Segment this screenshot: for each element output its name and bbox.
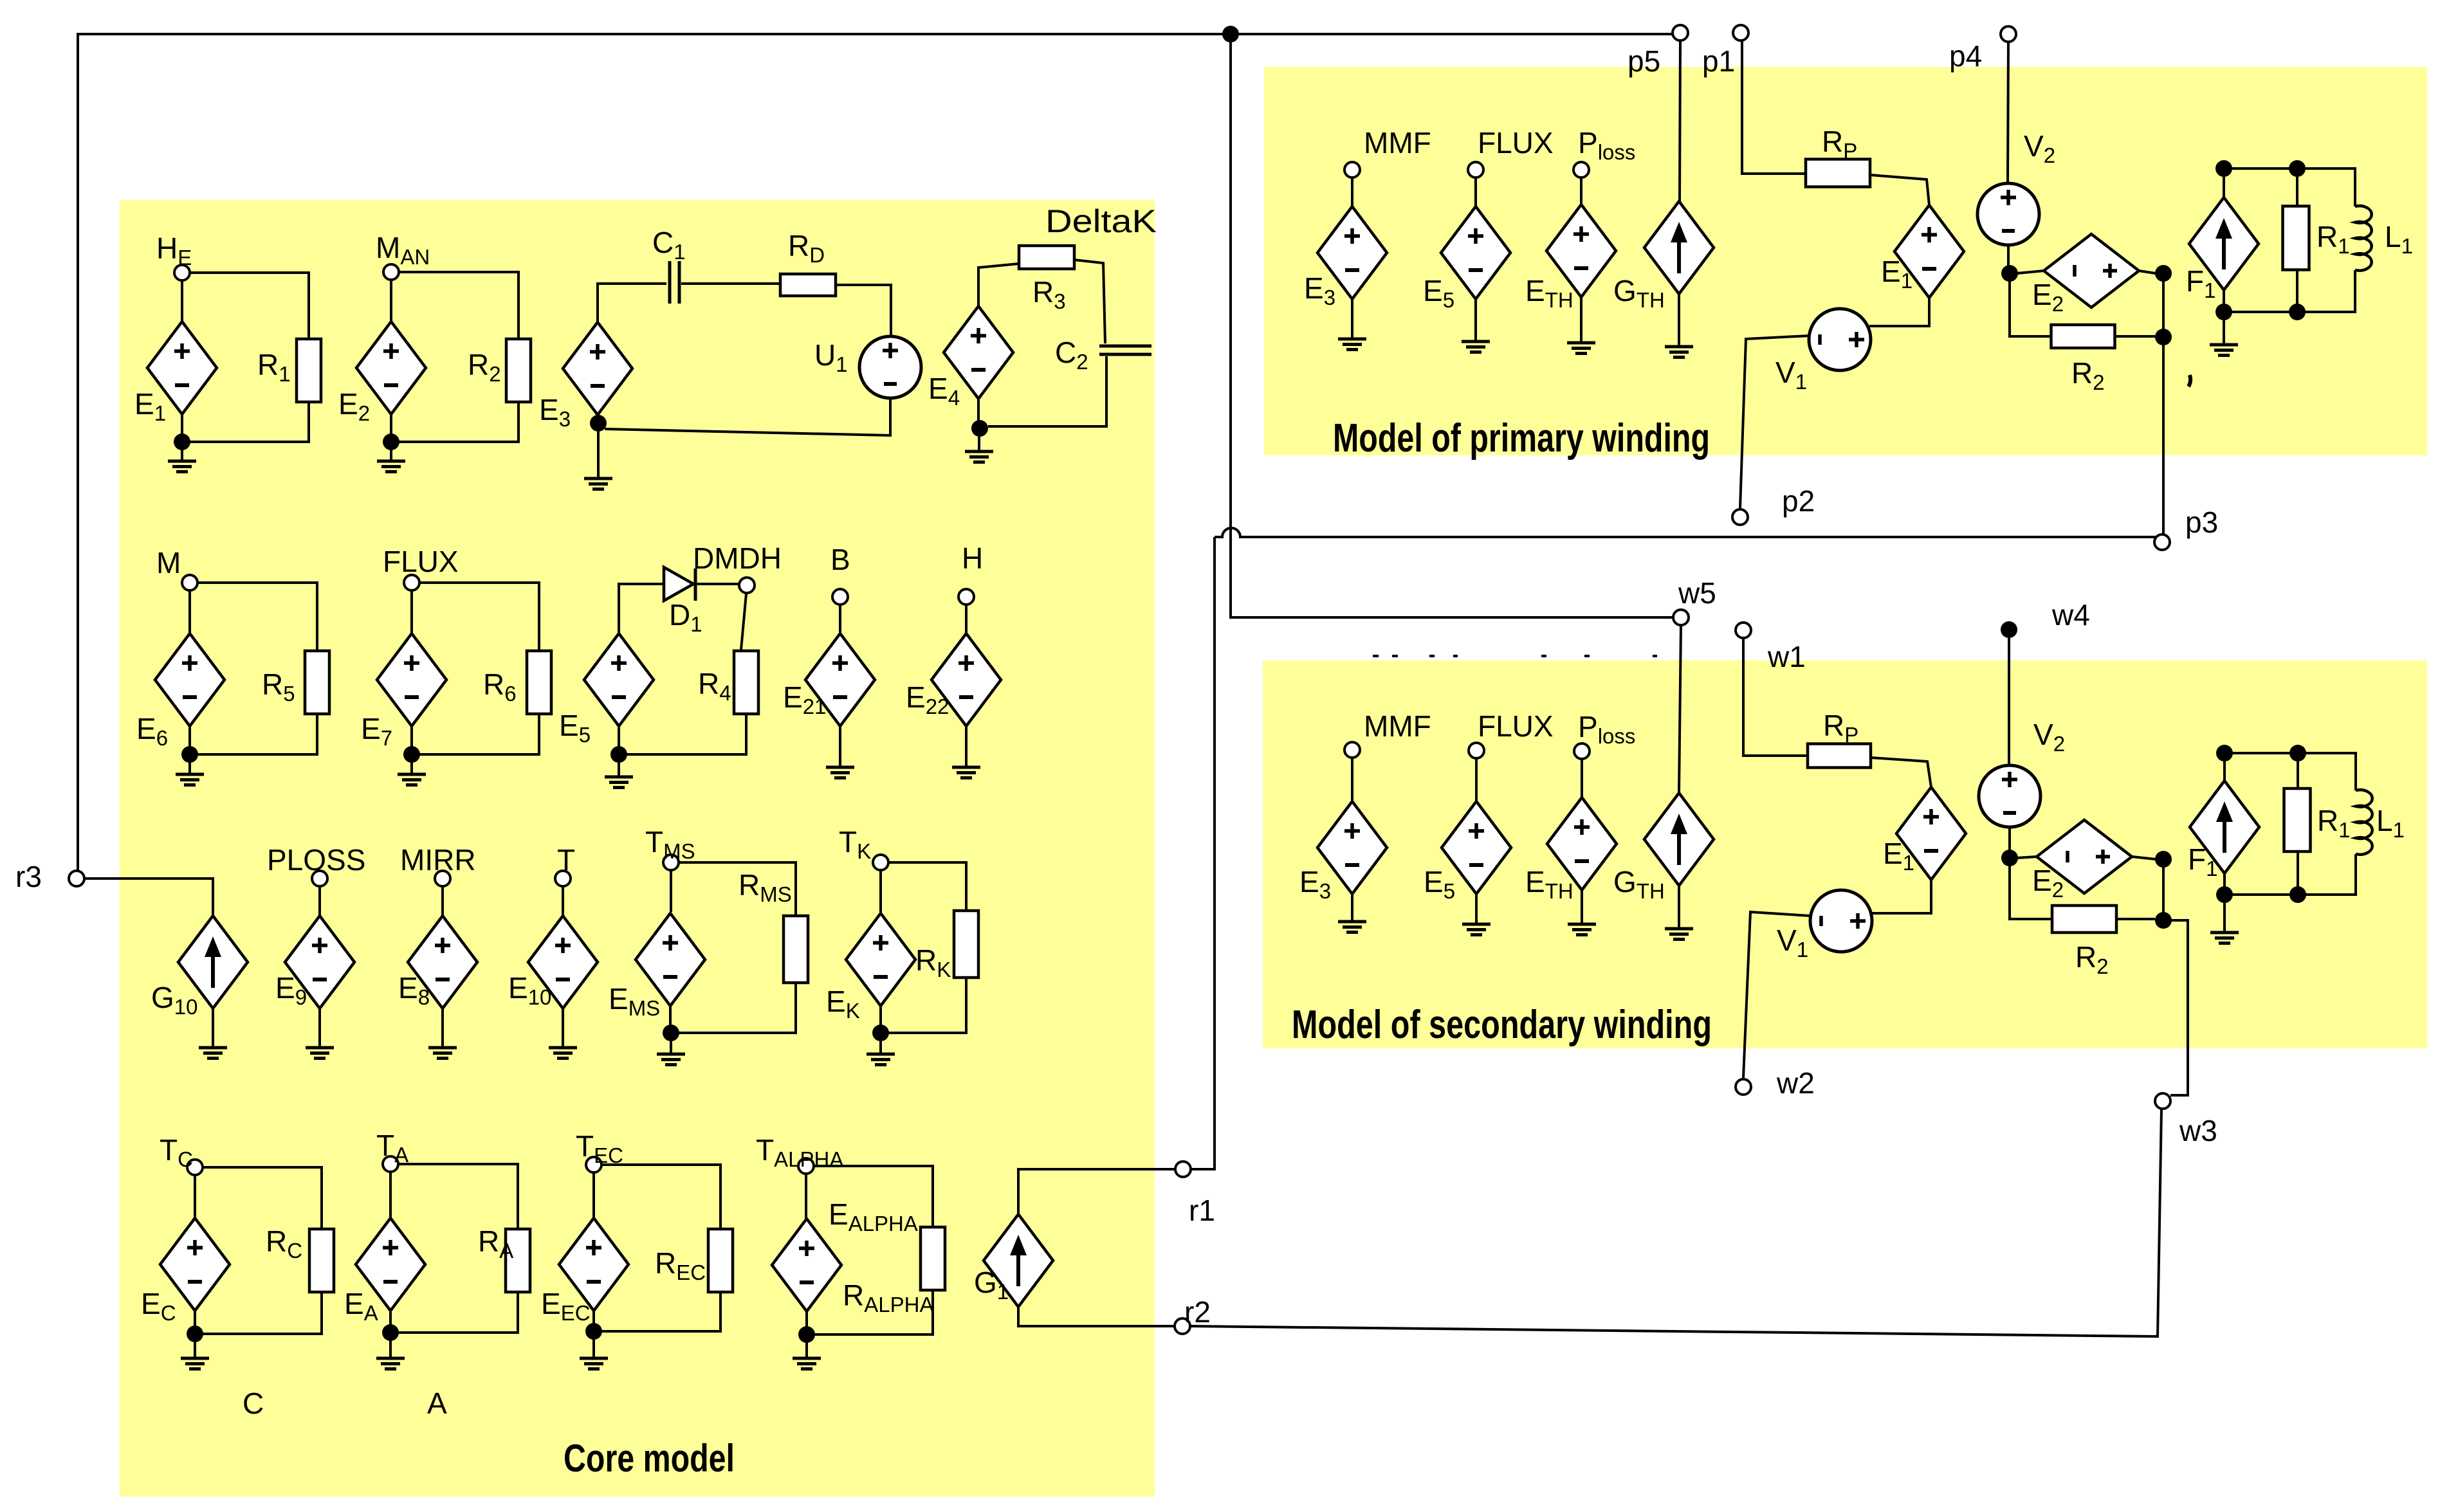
junction R1 bottom (secondary) (2289, 886, 2306, 903)
ground E9 (306, 1048, 334, 1059)
resistor RMS (784, 916, 808, 983)
terminal r1 (1175, 1161, 1191, 1177)
ground E1 (168, 461, 196, 472)
wire w4 to V2 (secondary) (2008, 638, 2010, 765)
wire E3 dot to ground (597, 432, 600, 478)
secondary winding yellow box (1263, 660, 2427, 1048)
source E8 (408, 916, 477, 1008)
source E3 (secondary) (1317, 801, 1387, 894)
svg-text:Model of secondary winding: Model of secondary winding (1292, 1003, 1712, 1047)
source E9 (285, 916, 354, 1008)
wire E4 dot to ground (978, 437, 980, 451)
terminal FLUX (secondary) (1469, 743, 1484, 758)
wire R2 to dot (primary) (2115, 335, 2155, 338)
svg-text:FLUX: FLUX (383, 545, 459, 578)
wire Ploss to ETH (secondary) (1581, 759, 1583, 797)
junction EK bottom (872, 1025, 889, 1041)
wire EALPHA dot to ground (805, 1342, 808, 1358)
wire E5 to ground (secondary) (1475, 894, 1478, 924)
resistor RC (309, 1229, 334, 1292)
wire L1 bottom (secondary) (2224, 854, 2356, 895)
wire p5 to GTH (primary) (1680, 41, 1680, 201)
wire V2 to dot (secondary) (2008, 827, 2011, 850)
wire dot to R2 (secondary) (2010, 866, 2055, 919)
terminal p5 (1673, 25, 1688, 41)
wire EEC dot to ground (592, 1339, 595, 1358)
resistor R2 (core) (506, 339, 531, 402)
wire E2 dots vertical (secondary) (2162, 867, 2165, 913)
wire E1 to V1 (secondary) (1871, 880, 1931, 913)
wire E8 to ground (441, 1008, 444, 1048)
terminal MMF (secondary) (1344, 742, 1360, 758)
svg-text:w3: w3 (2179, 1114, 2217, 1147)
terminal w4 (filled) (2001, 621, 2017, 638)
wire TA to EA (389, 1172, 392, 1218)
wire E7 dot to ground (410, 762, 413, 774)
junction EMS bottom (663, 1025, 679, 1041)
source E5 (primary) (1441, 206, 1510, 299)
voltage source V1 (secondary) (1810, 890, 1872, 952)
svg-text:p2: p2 (1782, 484, 1815, 518)
core model yellow box (120, 200, 1155, 1497)
wire p3 rail with hop (1215, 528, 2156, 537)
junction V2 bottom (secondary) (2001, 850, 2018, 866)
ground E8 (428, 1048, 457, 1059)
terminal DMDH (739, 578, 755, 593)
svg-text:p1: p1 (1702, 44, 1735, 78)
source E1 (secondary) (1896, 787, 1966, 880)
resistor R1 (secondary) (2284, 788, 2311, 852)
wire TC to RC top (203, 1167, 322, 1229)
wire w1 to RP (secondary) (1743, 639, 1808, 756)
junction E6 bottom (181, 746, 198, 763)
ground EC (181, 1358, 209, 1369)
ground EEC (580, 1358, 608, 1369)
source G10 (178, 916, 248, 1008)
wire TMS to EMS (670, 870, 672, 912)
source E3 (core) (563, 322, 632, 415)
wire TC to EC (194, 1175, 196, 1218)
junction E2 right (primary) (2155, 265, 2172, 282)
wire MMF to E3 (primary) (1351, 178, 1353, 206)
resistor R3 (core) (1019, 246, 1074, 269)
wire F1 to ground (primary) (2223, 320, 2225, 345)
ground EA (376, 1358, 405, 1369)
wire EALPHA bottom to dot (805, 1311, 808, 1327)
wire TA to RA top (398, 1164, 518, 1229)
wire H to E22 (965, 605, 968, 633)
wire M to R5 top (197, 583, 317, 651)
wire E21 to ground (839, 726, 841, 767)
wire E6 dot to ground (188, 762, 191, 774)
svg-text:p3: p3 (2185, 506, 2218, 539)
wire C1 to RD (681, 282, 780, 285)
junction E4 bottom (971, 420, 988, 437)
terminal r3 (69, 871, 84, 886)
wire dot to w3 (2163, 920, 2188, 1095)
source ETH (secondary) (1547, 797, 1617, 890)
junction R1 top (secondary) (2289, 745, 2306, 761)
ground E3 (primary) (1338, 339, 1366, 350)
wire E7 bottom to dot (410, 726, 413, 747)
resistor RP (secondary) (1808, 744, 1871, 768)
wire dot to p3 (2162, 345, 2165, 534)
ground ETH (secondary) (1568, 924, 1596, 935)
source E2 (primary) (2044, 234, 2139, 307)
source E7 (377, 633, 446, 726)
wire F1 bottom stem (secondary) (2223, 873, 2226, 895)
ground F1 (primary) (2210, 345, 2238, 356)
hidden text remnant dashes (1373, 655, 1657, 657)
ground E3 (584, 478, 612, 489)
wire E10 to ground (562, 1008, 564, 1048)
wire F1 bottom stem (primary) (2223, 290, 2225, 312)
wire E5 top to D1 (619, 584, 663, 633)
source ETH (primary) (1546, 205, 1616, 297)
terminal T (555, 871, 571, 886)
svg-text:FLUX: FLUX (1478, 126, 1554, 159)
resistor REC (708, 1229, 733, 1292)
wire EA dot to RA bottom (398, 1292, 518, 1333)
wire E6 dot to R5 bottom (197, 714, 317, 754)
svg-text:T: T (557, 843, 575, 877)
wire HE to R1 top (190, 273, 309, 339)
svg-text:B: B (830, 543, 850, 576)
source G1 (984, 1214, 1053, 1307)
voltage source V2 (primary) (1977, 183, 2039, 245)
source E6 (155, 633, 225, 726)
source E4 (core) (944, 306, 1013, 399)
ground F1 (secondary) (2210, 933, 2239, 943)
junction R1 bottom (primary) (2289, 304, 2306, 320)
wire GTH to ground (secondary) (1678, 886, 1680, 929)
svg-text:w4: w4 (2051, 598, 2090, 632)
wire EMS bottom to dot (669, 1006, 672, 1026)
source EC (160, 1218, 230, 1311)
wire E2 dot to R2 bottom (399, 402, 518, 442)
wire R1 stems (primary) (2296, 176, 2298, 312)
terminal p1 (1733, 25, 1748, 41)
wire M to E6 (188, 590, 191, 633)
wire E2 dot to ground (390, 450, 392, 461)
wire MAN to E2 (390, 280, 392, 322)
wire RD to U1 (836, 285, 891, 336)
source E5 (secondary) (1442, 801, 1511, 894)
junction R2 right (secondary) (2155, 912, 2172, 929)
wire EK dot to RK bottom (888, 978, 966, 1033)
voltage source U1 (859, 336, 921, 398)
wire E3 to ground (secondary) (1351, 894, 1353, 922)
junction F1 bottom (secondary) (2216, 886, 2233, 903)
terminal PLOSS (312, 871, 327, 886)
junction EEC bottom (585, 1323, 602, 1340)
resistor RALPHA (921, 1227, 945, 1290)
terminal TMS (663, 855, 679, 870)
resistor RK (954, 911, 978, 978)
svg-text:H: H (962, 542, 983, 575)
wire RP to E1 (primary) (1870, 175, 1929, 205)
svg-text:r3: r3 (15, 860, 42, 893)
terminal MIRR (435, 871, 450, 886)
wire E5 dot to ground (618, 762, 620, 777)
source EEC (559, 1218, 628, 1311)
source E22 (931, 633, 1001, 726)
terminal w2 (1736, 1079, 1751, 1095)
wire R2 to dot (secondary) (2115, 918, 2155, 920)
wire B to E21 (839, 605, 841, 633)
ground EK (867, 1054, 895, 1065)
source E3 (primary) (1317, 206, 1387, 299)
source EALPHA (772, 1219, 841, 1311)
terminal TEC (586, 1157, 601, 1172)
wire left rail (77, 33, 79, 871)
source EMS (636, 913, 705, 1006)
source E2 (core) (356, 322, 426, 414)
wire E9 to ground (318, 1008, 321, 1048)
wire EA dot to ground (389, 1340, 392, 1358)
wire FLUX to R6 top (419, 583, 539, 651)
terminal w1 (1736, 623, 1751, 638)
wire EMS dot to ground (670, 1041, 672, 1054)
wire E1 dot to R1 bottom (190, 402, 309, 442)
wire dot to R2 (primary) (2010, 281, 2051, 336)
primary winding yellow box (1264, 67, 2427, 455)
wire RP to E1 (secondary) (1871, 758, 1931, 787)
source GTH (secondary) (1644, 793, 1714, 886)
source EK (846, 913, 915, 1006)
terminal Ploss (primary) (1573, 162, 1589, 178)
wire EEC bottom to dot (592, 1311, 595, 1324)
wire V2 to dot (primary) (2007, 245, 2010, 266)
stray apostrophe mark (2188, 375, 2190, 387)
wire HE to E1 (181, 280, 183, 322)
ground E7 (398, 774, 426, 785)
ground GTH (primary) (1665, 347, 1693, 358)
ground GTH (secondary) (1665, 929, 1693, 940)
wire ETH to ground (primary) (1580, 297, 1582, 343)
junction EALPHA bottom (798, 1326, 815, 1343)
capacitor C1 (670, 261, 679, 304)
wire MMF to E3 (secondary) (1351, 758, 1353, 801)
ground E22 (952, 767, 980, 778)
junction EA bottom (382, 1324, 399, 1341)
wire E5 bottom to dot (618, 726, 620, 747)
junction R2 right (primary) (2155, 329, 2172, 345)
junction top rail (1222, 26, 1239, 42)
wire F1 top rail (primary) (2224, 167, 2297, 170)
junction R1 top (primary) (2289, 160, 2306, 177)
terminal TK (873, 855, 888, 870)
wire TEC to REC top (601, 1165, 720, 1229)
wire E1 to V1 (primary) (1869, 298, 1929, 326)
svg-text:w2: w2 (1776, 1066, 1815, 1100)
junction EC bottom (187, 1325, 203, 1342)
wire FLUX to E5 (primary) (1474, 178, 1477, 206)
wire ETH to ground (secondary) (1581, 890, 1583, 924)
wire E3 to ground (primary) (1351, 299, 1353, 339)
wire TMS to RMS top (679, 862, 796, 915)
ground E10 (549, 1048, 577, 1059)
wire p1 to RP (primary) (1742, 41, 1806, 174)
wire EALPHA dot to RALPHA bottom (814, 1290, 933, 1334)
ground E3 (secondary) (1338, 922, 1366, 933)
voltage source V1 (primary) (1809, 309, 1871, 370)
wire E2 bottom to dot (390, 414, 392, 435)
wire EC bottom to dot (194, 1311, 196, 1327)
wire top junction to w5 (1231, 34, 1673, 617)
wire E2 to dot right (secondary) (2132, 857, 2156, 859)
wire R3 to C2 (1074, 260, 1105, 343)
ground EMS (657, 1054, 685, 1065)
source GTH (primary) (1644, 201, 1714, 294)
svg-text:r1: r1 (1189, 1194, 1215, 1227)
resistor R1 (core) (297, 339, 321, 402)
ground E5 (core) (605, 777, 633, 788)
ground ETH (primary) (1567, 343, 1595, 354)
wire E6 bottom to dot (188, 726, 191, 747)
wire R4 bottom to dot (627, 714, 746, 754)
ground E21 (826, 767, 854, 778)
source F1 (primary) (2189, 197, 2259, 290)
wire U1 bottom to E3 dot (605, 398, 890, 435)
wire EK bottom to dot (879, 1006, 882, 1026)
svg-text:DeltaK: DeltaK (1045, 203, 1157, 239)
wire L1 bottom (primary) (2224, 270, 2355, 312)
wire T to E10 (562, 886, 564, 916)
wire PLOSS to E9 (318, 886, 321, 916)
wire V1 to p2 (primary) (1740, 336, 1810, 508)
wire EC dot to ground (194, 1342, 196, 1358)
source E10 (528, 916, 598, 1008)
wire F1 top rail (secondary) (2224, 752, 2298, 754)
wire FLUX to E5 (secondary) (1475, 758, 1478, 801)
wire R1 stems (secondary) (2297, 761, 2299, 895)
svg-text:A: A (427, 1387, 447, 1420)
inductor L1 (secondary) (2356, 790, 2372, 855)
ground EALPHA (793, 1358, 821, 1369)
wire Ploss to ETH (primary) (1580, 178, 1582, 205)
ground E2 (377, 461, 405, 472)
source E2 (secondary) (2037, 820, 2132, 893)
wire top rail (78, 33, 1673, 35)
terminal w3 (2155, 1093, 2170, 1109)
svg-text:PLOSS: PLOSS (267, 843, 365, 877)
wire EMS dot to RMS bottom (679, 983, 796, 1033)
wire F1 to ground (secondary) (2223, 902, 2226, 933)
resistor R1 (primary) (2283, 206, 2309, 270)
svg-text:Model of primary winding: Model of primary winding (1333, 416, 1710, 460)
wire MIRR to E8 (441, 886, 444, 916)
inductor L1 (primary) (2355, 206, 2372, 271)
terminal Ploss (secondary) (1574, 743, 1590, 759)
wire E22 to ground (965, 726, 968, 767)
wire R1 top to L1 (primary) (2297, 169, 2355, 206)
wire C2 to E4 dot (988, 356, 1106, 426)
terminal r2 (1175, 1318, 1190, 1334)
terminal MMF (primary) (1344, 162, 1360, 178)
resistor R2 (primary) (2051, 325, 2115, 348)
wire r1 to G1 (1018, 1169, 1191, 1214)
wire R1 top to L1 (secondary) (2298, 753, 2356, 790)
ground E6 (176, 774, 204, 785)
terminal MAN (383, 264, 399, 280)
ground G10 (199, 1048, 227, 1059)
terminal M (182, 575, 197, 590)
wire E4 top to R3 (978, 264, 1019, 306)
wire MAN to R2 top (399, 272, 518, 339)
junction V2 bottom (primary) (2001, 265, 2018, 282)
wire TALPHA to EALPHA (805, 1174, 807, 1219)
wire E1 dot to ground (181, 450, 183, 461)
wire G10 to ground (212, 1008, 214, 1048)
wire GTH to ground (primary) (1678, 294, 1680, 347)
svg-text:MMF: MMF (1364, 126, 1431, 159)
wire r2 to w3 (1190, 1109, 2161, 1336)
terminal TC (187, 1160, 203, 1175)
svg-text:MMF: MMF (1364, 709, 1431, 743)
wire E5 to ground (primary) (1474, 299, 1477, 342)
wire F1 top stem (secondary) (2223, 761, 2226, 782)
terminal FLUX (primary) (1468, 162, 1483, 178)
terminal w5 (1673, 610, 1689, 625)
svg-text:DMDH: DMDH (693, 542, 782, 575)
junction E2 right (secondary) (2155, 851, 2172, 868)
source E1 (primary) (1894, 205, 1964, 298)
junction F1 bottom (primary) (2215, 304, 2232, 320)
svg-text:w1: w1 (1767, 640, 1806, 673)
wire EA bottom to dot (389, 1311, 392, 1325)
wire TALPHA to RALPHA top (814, 1166, 933, 1227)
resistor RP (primary) (1806, 159, 1870, 187)
terminal p3 (2154, 534, 2170, 550)
junction E2 bottom (383, 433, 399, 450)
terminal HE (174, 265, 190, 280)
wire TEC to EEC (592, 1172, 595, 1218)
wire EC dot to RC bottom (203, 1292, 322, 1334)
junction E1 bottom (174, 433, 190, 450)
diode D1 (664, 567, 695, 601)
svg-text:MIRR: MIRR (400, 843, 476, 877)
wire E3 top to C1 (598, 284, 666, 322)
wire V1 to w2 (secondary) (1743, 912, 1810, 1078)
terminal p4 (2001, 26, 2016, 42)
ground E5 (secondary) (1462, 924, 1490, 935)
junction E3 bottom (590, 415, 607, 432)
wire E4 bottom to dot (977, 399, 980, 421)
wire E2 dots vertical (primary) (2162, 281, 2165, 329)
terminal H (959, 589, 974, 605)
wire p4 to V2 (primary) (2008, 42, 2008, 183)
wire w5 to GTH (secondary) (1679, 626, 1681, 793)
svg-text:r2: r2 (1184, 1295, 1211, 1329)
wire E2 to dot right (primary) (2139, 271, 2156, 273)
junction E7 bottom (403, 746, 420, 763)
svg-text:w5: w5 (1678, 576, 1716, 610)
capacitor C2 (1099, 346, 1151, 354)
wire G1 to r2 (1018, 1307, 1175, 1326)
terminal p2 (1732, 509, 1748, 525)
ground E4 (965, 451, 993, 462)
svg-text:Core model: Core model (564, 1437, 735, 1480)
wire E7 dot to R6 bottom (419, 714, 539, 754)
junction F1 top (secondary) (2216, 745, 2233, 761)
wire TK to EK (879, 870, 882, 912)
ground E5 (primary) (1462, 342, 1490, 352)
terminal FLUX (core) (404, 575, 419, 590)
wire r3 to G10 (84, 879, 213, 916)
junction E5 bottom (core) (610, 746, 627, 763)
wire p3 corner to r1 (1191, 537, 1215, 1169)
